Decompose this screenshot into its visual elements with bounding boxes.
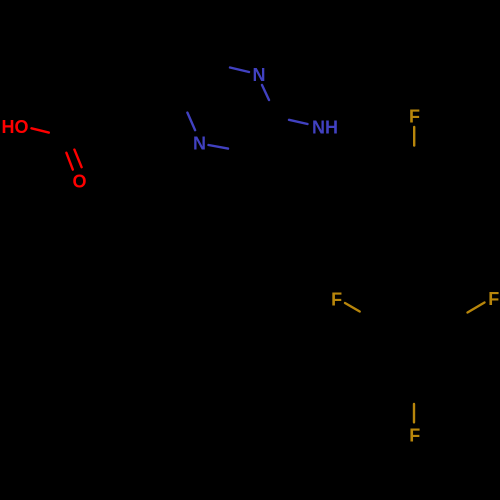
- bond F-C vertical (gold half): [413, 127, 415, 146]
- bond F-C down-right (gold half): [345, 303, 360, 312]
- bond C1=O2 double bond line b (red half): [74, 150, 81, 168]
- bond N(lower)-C up (blue half): [187, 113, 195, 131]
- svg-text:F: F: [409, 106, 420, 126]
- svg-text:N: N: [253, 65, 266, 85]
- svg-text:F: F: [409, 425, 420, 445]
- bond N(lower)-C right (blue half): [209, 145, 229, 149]
- bond F-C down-left (gold half): [468, 303, 485, 313]
- bond F-C vertical up (gold half): [413, 404, 415, 422]
- svg-text:O: O: [72, 171, 86, 191]
- svg-text:F: F: [488, 289, 499, 309]
- bond HO-C1 (red half): [32, 128, 49, 132]
- bond N(top)-C up-left (blue half): [230, 68, 249, 73]
- svg-text:NH: NH: [312, 118, 338, 138]
- bond N(top)-C down (blue half): [262, 85, 269, 100]
- svg-text:N: N: [193, 133, 206, 153]
- svg-text:HO: HO: [2, 117, 29, 137]
- bond C-NH (blue half): [289, 120, 308, 124]
- bond C1=O2 double bond line a (red half): [66, 153, 72, 170]
- svg-text:F: F: [331, 289, 342, 309]
